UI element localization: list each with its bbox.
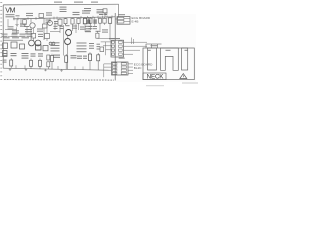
- node value label b2b: [11, 53, 17, 54]
- resistor R16: [47, 55, 50, 69]
- wire drop v7: [78, 25, 80, 30]
- wire J4-P1 stub end A: [131, 38, 133, 45]
- wire top rail: [3, 3, 118, 6]
- node value label t2c: [89, 43, 94, 44]
- node ref label m8b: [85, 28, 91, 29]
- node ref label m7: [72, 26, 77, 27]
- wire left margin tick marks: [0, 2, 2, 80]
- wire drop v2: [20, 19, 22, 26]
- node value label b2f: [53, 55, 60, 56]
- resistor R2: [23, 19, 27, 27]
- wire rail lead ticks: [14, 15, 112, 20]
- op-amp U2: [43, 46, 48, 51]
- node scan wash left: [3, 5, 116, 81]
- resistor R11: [103, 17, 106, 25]
- resistor R6: [71, 18, 74, 26]
- wire drop v8: [90, 25, 92, 30]
- ground GND1: [9, 68, 11, 70]
- node net label T1a: [60, 7, 67, 8]
- node value label b2e: [38, 53, 43, 54]
- node ref label m5: [12, 30, 19, 31]
- transistor Q2: [48, 18, 53, 25]
- transistor Q4: [65, 39, 71, 45]
- connector J4-P2 pin 2: [112, 66, 133, 68]
- wire ground drop 3: [74, 66, 76, 69]
- wire left frame edge: [2, 5, 4, 68]
- node net label T2g: [104, 14, 107, 15]
- wire mid right link: [97, 37, 115, 39]
- connector J4-P2 pin 4: [112, 72, 133, 74]
- connector J4-P3 body: [117, 17, 130, 25]
- wire vertical at 76: [75, 24, 77, 34]
- node net label T2b: [26, 13, 33, 14]
- wire NECK drop 3: [157, 44, 159, 48]
- node value label b2c: [22, 53, 29, 54]
- wire Q4 emitter drop: [67, 45, 69, 70]
- connector J4-P3 pin 2: [118, 20, 130, 23]
- component box on rail: [39, 14, 44, 18]
- node ref label m1: [8, 26, 14, 27]
- node net label T0c: [91, 1, 98, 4]
- node label P203: [185, 50, 188, 51]
- wire J4-P1 feed C: [106, 49, 112, 51]
- node label P202: [166, 50, 171, 51]
- wire mid link b: [50, 31, 60, 33]
- wire NECK stub bus: [146, 43, 162, 45]
- transistor Q3: [66, 30, 72, 36]
- node label J4 P2 header: [119, 58, 125, 59]
- node value label b2g: [71, 55, 77, 56]
- wire mid link c: [8, 35, 20, 37]
- wire bottom ground bus: [3, 68, 108, 70]
- resistor R17: [51, 54, 54, 69]
- wire NECK drop 2: [151, 44, 153, 48]
- node ref label r7: [89, 26, 93, 27]
- wire J4-P1 feed B: [103, 45, 111, 47]
- node ref label r3: [20, 24, 26, 25]
- wire J4-P2 feed A: [104, 63, 112, 65]
- capacitor C11: [103, 9, 107, 17]
- svg-text:BL2C: BL2C: [134, 66, 143, 70]
- node net label T0b: [74, 1, 83, 4]
- ground GND2: [25, 69, 27, 71]
- connector J4-P3 pin 1: [118, 17, 130, 19]
- resistor R5: [64, 18, 67, 26]
- node net label T1d: [104, 13, 108, 14]
- resistor R7: [77, 18, 80, 26]
- connector J5 NECK body: [143, 48, 194, 80]
- capacitor C16: [45, 34, 50, 42]
- node value label v5: [38, 34, 43, 35]
- node value label row37 a: [3, 37, 10, 38]
- wire ground drop 4: [82, 67, 84, 70]
- wire J4-P1 feed vertical: [105, 42, 107, 55]
- node net label T2d: [73, 12, 80, 13]
- node warning triangle: [180, 74, 187, 79]
- resistor R13: [10, 58, 13, 68]
- node ref label r4: [54, 26, 58, 27]
- node ref label m4: [37, 29, 43, 30]
- node ref label m9: [85, 26, 92, 27]
- node value label row37 c: [22, 37, 30, 38]
- wire ground drop 0: [15, 65, 17, 68]
- svg-text:VM: VM: [5, 6, 15, 15]
- wire lead e1: [65, 24, 67, 25]
- connector J5 slot 3: [182, 48, 188, 70]
- resistor R9: [89, 17, 92, 25]
- resistor R19: [88, 52, 91, 70]
- node ref label r8: [93, 26, 97, 27]
- wire drop v6: [72, 26, 74, 31]
- wire connector corner drop: [118, 4, 120, 17]
- resistor R14: [30, 59, 33, 69]
- connector J5 slot 1: [148, 48, 157, 70]
- node label J4 P1 header: [109, 38, 120, 39]
- node net label T1b: [84, 8, 91, 9]
- node value label t2b: [77, 43, 87, 44]
- wire J4-P2 feed C: [109, 69, 112, 71]
- wire bus to J4-P3: [115, 18, 117, 20]
- node value label b2d: [31, 53, 36, 54]
- connector J4-P2 body: [112, 62, 129, 75]
- node label P201: [151, 45, 158, 46]
- wire Q3-Q4 link: [67, 36, 69, 39]
- capacitor C14 polarized: [94, 17, 97, 24]
- node junction bubble A: [49, 42, 52, 45]
- wire J4-P1 feed drop: [109, 23, 111, 40]
- node value label t2d: [97, 44, 101, 45]
- wire ground drop 2: [57, 66, 59, 69]
- node value label v2: [20, 34, 26, 35]
- wire drop v3: [26, 26, 28, 34]
- capacitor C2: [20, 44, 25, 49]
- wire J4-P1 stub end B: [133, 39, 135, 44]
- wire drop v1: [16, 27, 18, 33]
- node ref label r6: [66, 25, 70, 26]
- wire drop v11: [46, 22, 48, 34]
- node value label b2i: [83, 56, 87, 57]
- op-amp U1: [11, 42, 17, 48]
- connector J4-P2 pin 1: [112, 63, 133, 65]
- wire J4-P1 feed A: [101, 41, 111, 43]
- wire drop v9: [99, 25, 101, 31]
- wire drop v4: [54, 22, 56, 31]
- diode CR1 dark box: [36, 45, 42, 50]
- resistor R10: [99, 17, 102, 25]
- svg-text:NECK: NECK: [147, 74, 165, 81]
- node value label v3: [27, 34, 33, 35]
- connector J4-P2 pin 3: [112, 69, 133, 71]
- wire drop v5: [59, 27, 61, 33]
- node ref label r2: [54, 21, 58, 22]
- node net label T2c: [46, 12, 52, 13]
- wire drop v10: [32, 28, 34, 33]
- wire ground drop 1: [24, 65, 26, 68]
- transistor Q1: [30, 19, 35, 40]
- node net label T1c: [97, 9, 104, 10]
- node net label 1SB BKPL: [6, 14, 15, 15]
- relay K1 coil A: [29, 40, 35, 46]
- resistor R4: [58, 18, 62, 27]
- wire main vertical bus: [114, 13, 116, 81]
- connector J4-P1 pin 1: [112, 41, 147, 43]
- connector J4-P1 pin 2: [112, 45, 147, 47]
- resistor R18: [65, 54, 68, 69]
- wire T1c underline: [97, 12, 104, 14]
- capacitor C3: [100, 47, 104, 52]
- node ref label m8: [80, 27, 86, 28]
- node net label T2a: [16, 14, 20, 17]
- node ref label m12: [96, 31, 101, 32]
- node value label v0: [2, 34, 8, 35]
- node label P204: [148, 50, 151, 51]
- ground GND3: [44, 69, 46, 71]
- node ref label m10: [85, 31, 91, 32]
- connector E3 pad: [3, 51, 8, 57]
- node value label b2h: [77, 56, 82, 57]
- resistor R12: [108, 17, 111, 23]
- node ref label E3: [3, 60, 7, 61]
- node net label T2f: [99, 14, 104, 15]
- wire vertical at 63.5: [63, 25, 65, 55]
- node NECK label box: [143, 73, 166, 80]
- node net label T0a: [54, 1, 62, 4]
- node value label v1: [12, 34, 18, 35]
- node label J4 P3: [118, 14, 125, 15]
- connector J4-P1 pin 4: [112, 53, 133, 55]
- node value label b2a: [3, 53, 8, 54]
- resistor R20: [97, 53, 100, 70]
- resistor R8 dark: [83, 17, 86, 23]
- node faint note below box A: [182, 83, 198, 84]
- wire J4-P2 feed B: [104, 66, 112, 68]
- node ref label m2: [24, 26, 29, 27]
- ground GND4: [60, 69, 62, 71]
- capacitor C15: [31, 34, 36, 42]
- node value label row37 b: [12, 37, 19, 38]
- node ref label r5: [60, 26, 64, 27]
- wire VCC rail: [13, 17, 115, 19]
- wire J4-P2 feed vertical: [103, 64, 105, 77]
- connector J4-P1 body: [111, 40, 124, 57]
- wire mid link a: [5, 29, 17, 31]
- wire lead e3: [94, 24, 96, 26]
- wire drop v0: [7, 19, 9, 26]
- component box mid right: [96, 31, 99, 38]
- relay K1 coil B: [35, 40, 41, 46]
- connector E2 pad: [3, 43, 8, 49]
- wire lead e2: [84, 24, 86, 26]
- capacitor C12: [43, 18, 48, 40]
- node junction bubble B: [52, 42, 55, 45]
- svg-text:E-4B: E-4B: [132, 20, 139, 24]
- node footer note micro text: [4, 79, 114, 82]
- node value label t2a: [51, 42, 60, 43]
- node net label T2e: [82, 10, 90, 11]
- node ref label r1: [46, 20, 51, 21]
- wire mid horizontal: [3, 39, 23, 41]
- connector J5 slot 2: [161, 48, 179, 70]
- node ref label m6: [25, 29, 32, 30]
- connector J4-P1 pin 3: [112, 49, 140, 51]
- node faint note below box B: [146, 85, 164, 86]
- ground GND0: [15, 19, 18, 27]
- resistor R15: [39, 59, 42, 69]
- node scan wash right: [116, 14, 196, 82]
- wire NECK drop 1: [145, 44, 147, 48]
- capacitor C13 polarized: [87, 17, 90, 24]
- node ref label m11: [102, 29, 108, 30]
